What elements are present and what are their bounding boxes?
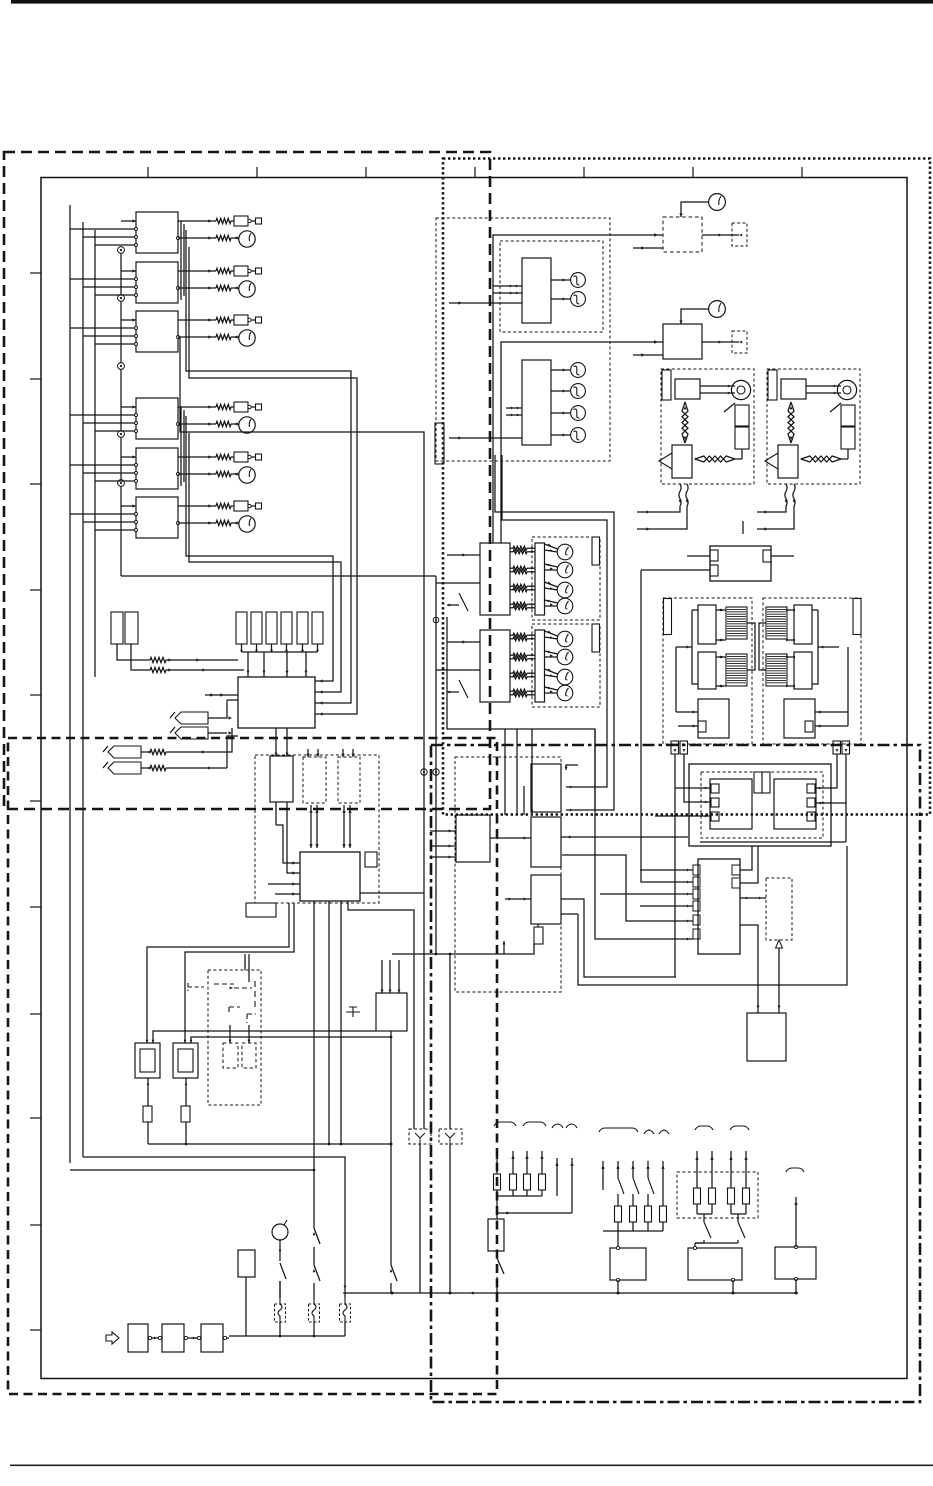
flag terminal xyxy=(188,983,204,991)
terminal block on module xyxy=(365,852,377,867)
terminal square K5a xyxy=(256,454,262,460)
terminal square K6a xyxy=(256,503,262,509)
wire: left vertical bus 1 xyxy=(69,205,71,1163)
wire: S3/S4 riser to junction box xyxy=(227,736,238,768)
wire: B3 sense line xyxy=(794,1197,797,1247)
wire: K2 output 2 xyxy=(178,286,238,289)
ignition coil ignition LH primary 1 xyxy=(698,605,716,644)
terminal square K4a xyxy=(256,404,262,410)
horn LH control block xyxy=(675,379,700,399)
module enclosure (dashed): ignition RH xyxy=(763,598,861,744)
ignition coil ignition RH primary 1 xyxy=(794,605,812,644)
wire: horn relay to RH pair xyxy=(771,555,794,557)
relay RY2 (double frame) xyxy=(173,1040,198,1078)
fuse F9 xyxy=(534,924,543,944)
ECU crystal block xyxy=(754,772,770,793)
wire: arrow stub above wiper amp xyxy=(565,765,579,770)
wire: relay K6 long run xyxy=(121,575,436,577)
wire: main ground bus xyxy=(343,1291,798,1294)
horn LH driver block xyxy=(672,445,692,478)
horn RH control block xyxy=(781,379,806,399)
wire: relay outputs long run 2 xyxy=(189,247,357,716)
load box B1 xyxy=(610,1246,646,1293)
ignition coil ignition RH secondary 1 xyxy=(766,607,787,639)
main fuse block xyxy=(488,1219,504,1258)
dashed contact pair a xyxy=(223,1043,238,1068)
resistor R31 xyxy=(216,317,231,322)
wire: timer out down xyxy=(776,940,783,1013)
wire: RH inputs xyxy=(436,640,480,698)
switch SW5 xyxy=(497,1258,504,1293)
wire: RL3 double-line drop xyxy=(342,805,351,848)
wire: feeder stubs to relay units xyxy=(70,221,128,530)
indicator gauge M1 xyxy=(231,231,255,247)
ECU outer case xyxy=(689,764,831,846)
connector CN4 (dashed) xyxy=(439,1129,462,1293)
wire: K1 output 1 xyxy=(178,219,216,222)
meter unit 1 enclosure (dashed) xyxy=(500,241,603,332)
frame: harness boundary A (dashed, top-left) xyxy=(4,152,490,809)
sender connector 2 (dashed) xyxy=(732,331,747,353)
fuse+switch column group B xyxy=(601,1161,666,1248)
fuse F7 xyxy=(143,1078,152,1144)
wire: relay K3 long run xyxy=(180,337,424,1129)
resistor R11 xyxy=(216,218,231,223)
resistor R21 xyxy=(216,268,231,273)
resistor (vertical) horn LH xyxy=(682,402,688,443)
resistor R13 xyxy=(150,657,238,662)
ECU inner enclosure (dashed) xyxy=(701,772,823,838)
module enclosure (dashed): wiper amp xyxy=(455,757,561,992)
resistor R16 xyxy=(141,765,227,770)
key block xyxy=(238,1250,255,1336)
relay block RL2 (dashed) xyxy=(303,757,326,803)
connector plug K5a xyxy=(231,452,255,462)
wire: unit top stub xyxy=(245,954,249,970)
frame: harness boundary C (dashed, bottom-left) xyxy=(8,738,497,1394)
wire: meter1 inputs xyxy=(449,285,522,305)
resistor R22 xyxy=(216,285,231,290)
wire: meter2 inputs xyxy=(449,407,522,440)
fuse group C (dashed box) xyxy=(677,1151,758,1218)
connector plug K2a xyxy=(231,266,255,276)
wire: K4 output 1 xyxy=(178,405,216,408)
wire: horn RH pigtails xyxy=(757,506,794,531)
wiper block W3 xyxy=(531,875,561,924)
corner connector RH xyxy=(592,624,600,652)
indicator gauge M5 xyxy=(231,467,255,483)
wire: fuel relay in2 xyxy=(633,246,663,249)
wire: RL2 double-line drop xyxy=(309,805,318,848)
wire: W1 entries xyxy=(430,830,456,859)
ECU bank B xyxy=(774,779,816,829)
module enclosure (dashed): light control xyxy=(255,755,379,903)
resistor R15 xyxy=(141,749,227,754)
indicator lamp L2 xyxy=(551,292,585,307)
horn RH driver block xyxy=(778,445,798,478)
wire: battery bus xyxy=(229,1335,345,1338)
wire: fuel relay out xyxy=(702,234,732,237)
harness label arcs row xyxy=(494,1122,804,1172)
wiper block W2a xyxy=(531,764,561,812)
module enclosure (dashed): turn-signal unit xyxy=(208,970,261,1105)
fuse column group A xyxy=(494,1151,574,1219)
wire: paired drop at relay K4-K5 right xyxy=(181,407,184,486)
wire: meter1 feed from boundary xyxy=(493,233,663,543)
wire: RM top-right brackets xyxy=(740,846,758,883)
resistor unit box xyxy=(747,1013,786,1061)
switch connector S2 xyxy=(170,727,208,739)
connector plug K6a xyxy=(231,501,255,511)
sender connector 1 (dashed) xyxy=(732,223,747,246)
module enclosure (dashed): ignition LH xyxy=(663,598,752,744)
boundary pass connector pair RH xyxy=(833,741,850,754)
module enclosure (dashed): meter assembly xyxy=(436,218,610,461)
wire: K3 output 2 xyxy=(178,335,238,338)
junction connector on lamp bracket xyxy=(433,617,439,623)
gauge G1 xyxy=(679,194,725,217)
resistor R12 xyxy=(216,235,231,240)
wire: horn LH pigtails xyxy=(637,506,687,531)
resistor R52 xyxy=(216,471,231,476)
wire: CN1/CN2 drops with resistors xyxy=(117,644,150,670)
battery cell 2 xyxy=(162,1324,184,1352)
temp unit block xyxy=(663,324,702,359)
wire: RM out down xyxy=(740,925,760,1013)
wire: K4 output 2 xyxy=(178,422,238,425)
connector block CN2 xyxy=(125,612,138,644)
dashed contact pair b xyxy=(242,1043,256,1068)
wire: W3 entries xyxy=(505,898,531,901)
wire: group C to load box B2 xyxy=(695,1243,738,1248)
switch connector S1 xyxy=(170,712,208,724)
horn RH switch tail xyxy=(830,403,841,412)
wire: K6 output 2 xyxy=(178,521,238,524)
gauge G2 xyxy=(679,301,725,324)
horn LH connector bar xyxy=(662,370,671,400)
switch connector S4 xyxy=(103,762,141,774)
junction box J/B xyxy=(238,677,315,728)
lamp enclosure (dashed) LH xyxy=(532,537,600,620)
relay unit K2 xyxy=(128,262,180,303)
wire: relay outputs long run 3 xyxy=(186,416,333,683)
ignition coil ignition LH secondary 2 xyxy=(726,654,747,686)
ignition coil ignition RH primary 2 xyxy=(794,652,812,689)
wire: K5 output 1 xyxy=(178,455,216,458)
wire: K3 output 1 xyxy=(178,318,216,321)
junction connectors on relay bus xyxy=(118,247,125,576)
frame: harness boundary B (dotted, top-right) xyxy=(443,159,930,815)
terminal square K1a xyxy=(256,218,262,224)
speaker cone horn RH xyxy=(765,453,778,469)
indicator lamp L4 xyxy=(551,384,585,399)
switch SW8 xyxy=(738,1214,745,1243)
ignition coil ignition LH primary 2 xyxy=(698,652,716,689)
wire: W feed risers xyxy=(505,729,533,815)
indicator gauge M2 xyxy=(231,281,255,297)
wire: ignition RH coil links xyxy=(786,609,839,688)
indicator lamp L5 xyxy=(551,406,585,421)
indicator lamp L1 xyxy=(551,273,585,288)
wire: igniter ignition LH inputs xyxy=(676,647,698,728)
ignition coil ignition RH secondary 2 xyxy=(766,654,787,686)
resistor R61 xyxy=(216,503,231,508)
wire: contact arrows xyxy=(229,1025,251,1043)
relay module RM xyxy=(698,859,740,954)
switch connector S3 xyxy=(103,746,141,758)
lamp resistors RH xyxy=(510,633,535,697)
speaker cone horn LH xyxy=(659,453,672,469)
ignition coil ignition LH secondary 1 xyxy=(726,607,747,639)
wiper block W2 xyxy=(531,817,561,867)
switch SW4 xyxy=(390,1265,397,1293)
meter unit 2 block xyxy=(522,360,551,445)
fusible link FL1 xyxy=(275,1281,286,1336)
resistor R41 xyxy=(216,404,231,409)
wire: RM left entries xyxy=(562,570,693,940)
wire: long run y985 xyxy=(578,846,847,985)
junction connector on link xyxy=(421,769,427,775)
indicator gauge M6 xyxy=(231,516,255,532)
wire: K5 output 2 xyxy=(178,472,238,475)
wire: module left entries xyxy=(268,882,300,895)
igniter unit ignition RH xyxy=(784,699,815,738)
wire: lower distribution bus xyxy=(148,1143,391,1146)
connector plug K1a xyxy=(231,216,255,226)
relay unit K3 xyxy=(128,311,180,352)
page top rule xyxy=(11,0,933,4)
frame: harness boundary D (dash-dot, bottom-right) xyxy=(431,745,920,1402)
timer unit (dashed) xyxy=(766,878,792,940)
module enclosure (dashed): horn RH xyxy=(767,369,860,484)
relay unit K5 xyxy=(128,448,180,489)
ignition RH connector bar xyxy=(853,599,861,635)
resistor pack horn LH xyxy=(735,405,749,449)
wire: bus elbow to fuse column 1 xyxy=(83,1157,347,1293)
wire: ECU feeds from pass connectors xyxy=(655,754,711,977)
relay unit K4 xyxy=(128,398,180,439)
wire: module right link xyxy=(360,892,424,894)
wire: RY feeds from module xyxy=(147,903,289,1043)
wire: horn relay feed left xyxy=(641,569,710,571)
relay unit K1 xyxy=(128,212,180,253)
wire: arrows into relay blocks xyxy=(275,728,355,757)
wire: temp unit in2 xyxy=(633,353,663,356)
resistor (horizontal) horn RH xyxy=(801,449,848,462)
module enclosure (dashed): horn LH xyxy=(661,369,754,484)
lamp driver RH xyxy=(480,630,510,702)
ignition switch dial xyxy=(272,1220,288,1252)
relay RY1 (double frame) xyxy=(135,1040,160,1078)
wire: bus elbow to fuse column 2 xyxy=(70,1169,315,1172)
lamp enclosure (dashed) RH xyxy=(532,624,600,707)
connector block CN1 xyxy=(111,612,123,644)
boundary pass connector pair LH xyxy=(671,741,688,754)
frame: solid schematic border xyxy=(30,167,907,1379)
indicator lamp L6 xyxy=(551,428,585,443)
lamp resistors LH xyxy=(510,546,535,610)
meter unit 1 block xyxy=(522,258,551,323)
wire: horn RH twisted pair xyxy=(785,484,796,506)
resistor R42 xyxy=(216,421,231,426)
switch SW7 xyxy=(704,1214,711,1243)
battery cell 3 xyxy=(201,1324,223,1352)
combination switch module xyxy=(300,852,360,901)
page bottom rule xyxy=(10,1465,933,1467)
lamp driver LH xyxy=(480,543,510,615)
RM terminal tabs xyxy=(693,865,740,939)
wire: relay outputs long run 4 xyxy=(189,433,341,694)
wire: K2 output 1 xyxy=(178,269,216,272)
fusible link FL2 xyxy=(309,1298,320,1336)
wire: temp unit out xyxy=(702,341,732,344)
wire: fuse bank to junction box xyxy=(240,644,319,677)
wire: ignition LH secondary bracket xyxy=(747,623,755,670)
wire: igniter ignition RH inputs xyxy=(815,647,848,728)
resistor R51 xyxy=(216,454,231,459)
indicator lamp L3 xyxy=(551,363,585,378)
battery source arrow xyxy=(106,1332,119,1344)
switch SW1 xyxy=(279,1250,286,1298)
terminal square K2a xyxy=(256,268,262,274)
connector plug K3a xyxy=(231,315,255,325)
wiper block W1 xyxy=(456,815,490,862)
wire: left vertical bus 2 xyxy=(82,222,84,1157)
dashed link wires in unit xyxy=(214,970,256,1023)
wire: RY right-pin feeds xyxy=(153,1031,392,1043)
lamp terminal strip RH xyxy=(535,630,545,702)
connector edge block on boundary xyxy=(435,423,444,464)
head lamps RH xyxy=(545,631,573,701)
connector plug K4a xyxy=(231,402,255,412)
wire: W2 entries xyxy=(490,837,531,840)
resistor pack horn RH xyxy=(841,405,855,449)
wire: lamp cluster feeds down right xyxy=(495,455,614,811)
horn LH switch tail xyxy=(724,403,735,412)
load box B2 xyxy=(688,1246,742,1293)
load box B3 xyxy=(775,1245,816,1293)
resistor R32 xyxy=(216,334,231,339)
wire: module bottom drops xyxy=(314,901,414,1228)
lamp terminal strip LH xyxy=(535,543,545,615)
diode symbol xyxy=(346,1007,360,1017)
motor M (horn RH) xyxy=(806,380,857,399)
wire: long run y729 xyxy=(447,617,595,810)
wire: J/B left input xyxy=(205,693,238,696)
ignition unit block xyxy=(376,993,407,1031)
igniter unit ignition LH xyxy=(698,699,729,738)
horn relay box xyxy=(710,546,771,581)
terminal square K3a xyxy=(256,317,262,323)
relay unit K6 xyxy=(128,497,180,538)
wire: horn relay to LH pair xyxy=(687,555,710,557)
wire: ignition unit feeds xyxy=(381,960,401,993)
wire: long feed y954 xyxy=(392,941,534,954)
head lamps LH xyxy=(545,544,573,614)
battery cell 1 xyxy=(128,1324,148,1352)
wire: left vertical bus 3 xyxy=(94,230,96,677)
fuse bank F1-F6 xyxy=(236,612,323,644)
resistor R14 xyxy=(150,667,244,672)
connector CN3 (dashed) xyxy=(409,1129,431,1293)
junction connector on lamp feed xyxy=(433,769,439,775)
fuse F8 xyxy=(181,1078,190,1144)
wire: relay outputs long run 1 xyxy=(186,230,351,705)
resistor R62 xyxy=(216,520,231,525)
wire: K6 output 1 xyxy=(178,504,216,507)
indicator gauge M3 xyxy=(231,330,255,346)
wire: LH inputs xyxy=(436,553,480,611)
wire: RM to timer xyxy=(740,897,766,900)
fuel relay (dashed) xyxy=(663,217,702,252)
wire: K1 output 2 xyxy=(178,236,238,239)
relay block RL1 xyxy=(270,756,293,802)
corner connector LH xyxy=(592,537,600,565)
wire: RL1 drop to combination module xyxy=(276,802,300,865)
wire: horn LH twisted pair xyxy=(679,484,689,506)
wire: ignition LH coil links xyxy=(676,609,726,688)
motor M (horn LH) xyxy=(700,380,751,399)
resistor (horizontal) horn LH xyxy=(695,449,742,462)
wire: paired drop at relay K1-K2 right xyxy=(181,221,184,300)
switch SW2 xyxy=(313,1228,320,1298)
resistor (vertical) horn RH xyxy=(788,402,794,443)
wire: ECU right feeds xyxy=(700,754,846,842)
ignition LH connector bar xyxy=(664,599,672,635)
wire: CN4 feed xyxy=(449,953,452,1129)
accessory block under module xyxy=(246,903,276,917)
node marker xyxy=(742,521,744,534)
indicator gauge M4 xyxy=(231,417,255,433)
wire: W outputs right xyxy=(561,836,688,978)
wire: battery links xyxy=(148,1336,229,1339)
wire: ignition RH secondary bracket xyxy=(759,623,766,670)
wire: meter2 feed line xyxy=(501,340,663,543)
ECU bank A xyxy=(710,779,752,829)
wire: SW4 riser xyxy=(390,1031,393,1265)
wire: S1/S2 to junction box xyxy=(208,700,238,735)
relay block RL3 (dashed) xyxy=(338,757,360,803)
wire: lamp feed continuation xyxy=(435,576,438,955)
fusible link FL3 xyxy=(340,1293,351,1336)
horn RH connector bar xyxy=(768,370,777,400)
